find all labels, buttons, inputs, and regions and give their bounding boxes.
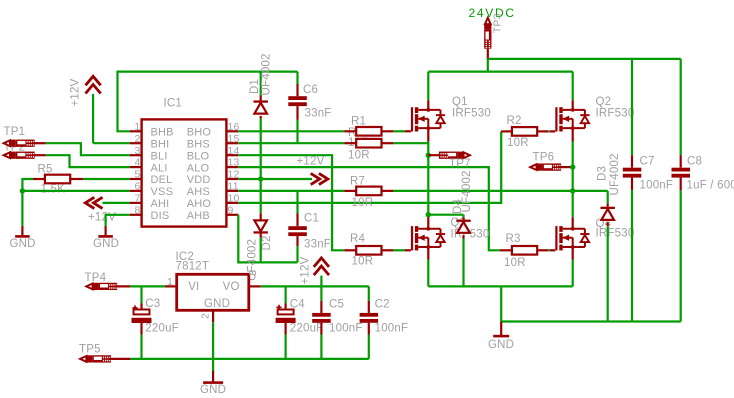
- capacitor C2: [360, 286, 379, 359]
- svg-text:TP5: TP5: [79, 344, 101, 356]
- value 1uF / 600 C8: [687, 180, 734, 192]
- ground GND (bridge): [493, 322, 509, 338]
- wire ALO row to R3: [238, 167, 500, 250]
- svg-text:UF4002: UF4002: [461, 170, 473, 212]
- label TP3 (rotated): [492, 13, 504, 33]
- transistor Q2 IRF530: [555, 107, 589, 131]
- svg-text:33nF: 33nF: [305, 108, 332, 120]
- svg-text:IRF530: IRF530: [452, 108, 491, 120]
- svg-text:4: 4: [134, 157, 140, 169]
- wire R5 right to IC1 pin 5: [83, 178, 130, 180]
- wire Q2 drain: [572, 72, 574, 110]
- value 10R R2: [507, 137, 529, 149]
- capacitor C4 (polarized): [276, 286, 296, 359]
- wire R4 to Q3 gate: [393, 249, 411, 251]
- svg-text:6: 6: [134, 181, 140, 193]
- value 7812T: [176, 260, 210, 272]
- capacitor C5: [312, 286, 331, 359]
- wire TP1 to IC1 pin 3: [46, 143, 130, 155]
- wire node B to D4: [428, 214, 463, 216]
- test point TP5: [80, 355, 130, 362]
- transistor Q3 IRF530: [411, 226, 445, 250]
- wire bridge bottom rail: [428, 285, 572, 287]
- wire to GND left: [21, 191, 23, 226]
- ground GND (left): [15, 226, 30, 238]
- wire IC1 pin1 BHB to top rail: [118, 72, 298, 132]
- value 1.5K: [41, 184, 66, 196]
- svg-text:Q2: Q2: [596, 96, 612, 108]
- value 220uF C4: [290, 323, 324, 335]
- wire R3 to Q4 gate: [548, 249, 555, 251]
- wire bridge to GND rail: [500, 286, 502, 321]
- value 100nF C7: [640, 180, 674, 192]
- svg-text:GND: GND: [488, 339, 514, 351]
- svg-text:C5: C5: [329, 299, 344, 311]
- svg-text:C1: C1: [304, 212, 319, 224]
- label UF4002 D3 (rotated): [609, 153, 621, 195]
- svg-text:10R: 10R: [504, 257, 526, 269]
- value 33nF C1: [304, 238, 331, 250]
- wire D2 top lead: [260, 179, 262, 220]
- svg-text:BHO: BHO: [187, 127, 212, 139]
- svg-text:AHO: AHO: [187, 198, 212, 210]
- wire Q4 source: [572, 247, 574, 286]
- svg-text:1.5K: 1.5K: [41, 184, 66, 196]
- wire R5 left to GND branch: [22, 179, 33, 191]
- label GND (DIS): [93, 238, 119, 250]
- label R4: [350, 233, 366, 245]
- capacitor C1: [288, 191, 307, 263]
- svg-text:13: 13: [228, 157, 240, 169]
- transistor Q4 IRF530: [555, 226, 589, 250]
- svg-text:DIS: DIS: [151, 210, 170, 222]
- label TP4: [85, 272, 107, 284]
- wire +12V to IC1 pin 2: [93, 142, 130, 144]
- wire R6 to Q1 source node: [393, 142, 428, 144]
- wire Q2 source column: [572, 128, 574, 217]
- svg-text:BLO: BLO: [187, 150, 210, 162]
- svg-text:10R: 10R: [348, 149, 370, 161]
- svg-text:TP7: TP7: [449, 158, 471, 170]
- supply +12V arrow (VO): [314, 258, 329, 287]
- label R3: [506, 233, 521, 245]
- svg-text:1: 1: [167, 276, 173, 288]
- label C5: [329, 299, 344, 311]
- label GND (left): [10, 238, 36, 250]
- diode D3 UF4002: [601, 191, 615, 322]
- svg-text:IRF530: IRF530: [451, 229, 490, 241]
- svg-text:+12V: +12V: [297, 156, 325, 168]
- svg-text:GND: GND: [10, 238, 36, 250]
- svg-text:16: 16: [228, 121, 240, 133]
- capacitor C3 (polarized): [132, 286, 152, 359]
- diode D2 UF4002: [254, 220, 268, 233]
- resistor R1: [344, 127, 393, 136]
- value IRF530 Q3: [451, 229, 490, 241]
- test point TP1: [4, 140, 46, 147]
- label R7: [350, 175, 365, 187]
- label D4 (rotated): [452, 198, 464, 214]
- svg-text:10R: 10R: [352, 256, 374, 268]
- svg-text:7: 7: [134, 193, 140, 205]
- svg-text:15: 15: [228, 133, 240, 145]
- wire GND rail right: [501, 320, 681, 322]
- svg-text:C8: C8: [687, 156, 702, 168]
- svg-text:TP6: TP6: [533, 151, 555, 163]
- label TP7: [449, 158, 471, 170]
- svg-text:D2: D2: [261, 235, 273, 250]
- label R1: [351, 115, 366, 127]
- wire AHO row to R2 branch: [238, 131, 501, 203]
- label TP5: [79, 344, 101, 356]
- svg-text:10: 10: [228, 193, 240, 205]
- svg-text:GND: GND: [204, 298, 230, 310]
- supply +12V arrow (VDD): [311, 173, 328, 184]
- wire D1 top lead: [260, 72, 262, 101]
- junction dot VDD/D1/D2: [258, 176, 263, 181]
- label +12V (pin 7): [88, 211, 116, 223]
- wire AHS row to R7: [238, 190, 344, 192]
- wire AHB to bootstrap node: [238, 215, 297, 263]
- ground GND (DIS): [98, 226, 113, 238]
- supply +12V arrow (pin 7 AHI): [85, 197, 129, 208]
- svg-text:C6: C6: [303, 84, 318, 96]
- svg-text:GND: GND: [200, 384, 226, 396]
- svg-text:D3: D3: [597, 166, 609, 181]
- label Q2: [596, 96, 612, 108]
- label GND (bridge): [488, 339, 514, 351]
- op-amp IC2 7812T regulator: [165, 270, 261, 322]
- value 100nF C2: [375, 323, 409, 335]
- svg-text:AHB: AHB: [187, 210, 210, 222]
- wire Q3 drain: [427, 215, 429, 229]
- svg-text:14: 14: [228, 145, 240, 157]
- test point TP6: [530, 163, 573, 170]
- svg-text:R3: R3: [506, 233, 521, 245]
- label R6 (behind R1 box): [348, 127, 363, 139]
- svg-text:R2: R2: [507, 115, 522, 127]
- label +12V VO (rotated): [300, 256, 312, 284]
- svg-text:3: 3: [134, 145, 140, 157]
- label C6: [303, 84, 318, 96]
- label UF4002 D2 (rotated): [247, 239, 259, 281]
- junction dot AHS/Q2 source: [570, 188, 575, 193]
- svg-text:IC1: IC1: [164, 98, 183, 110]
- value IRF530 Q2: [596, 108, 635, 120]
- wire Q3 source: [427, 247, 429, 286]
- svg-text:+12V: +12V: [88, 211, 116, 223]
- resistor R6: [344, 139, 393, 148]
- label C4: [290, 299, 306, 311]
- svg-text:C3: C3: [145, 298, 160, 310]
- svg-text:12: 12: [228, 169, 240, 181]
- svg-text:TP4: TP4: [85, 272, 107, 284]
- svg-text:BHB: BHB: [151, 127, 174, 139]
- svg-text:5: 5: [134, 169, 140, 181]
- wire DIS to GND: [106, 215, 130, 226]
- label UF4002 D4 (rotated): [461, 170, 473, 212]
- label TP2 (behind TP1 plug): [4, 142, 26, 154]
- value IRF530 Q4: [596, 228, 635, 240]
- wire BHO row to R1: [238, 130, 344, 132]
- label C1: [304, 212, 319, 224]
- capacitor C6: [288, 72, 307, 144]
- svg-text:TP1: TP1: [4, 126, 26, 138]
- svg-text:1: 1: [134, 121, 140, 133]
- svg-text:C7: C7: [640, 156, 655, 168]
- label TP6: [533, 151, 555, 163]
- svg-text:AHS: AHS: [187, 186, 210, 198]
- junction dot TP6: [570, 164, 575, 169]
- label D2 (rotated): [261, 235, 273, 250]
- wire R1 to Q1 gate: [393, 130, 411, 132]
- capacitor C7: [623, 59, 642, 322]
- label UF4002 D1 (rotated): [261, 53, 273, 95]
- svg-text:TP3: TP3: [492, 13, 504, 33]
- resistor R5: [33, 175, 83, 184]
- label +12V (VDD): [297, 156, 325, 168]
- svg-text:10R: 10R: [352, 197, 374, 209]
- wire R7 to Q2 source node: [393, 190, 607, 192]
- svg-text:3: 3: [247, 270, 259, 276]
- op-amp IC1 gate driver: [130, 119, 240, 226]
- wire 24V rail upper: [488, 58, 681, 60]
- svg-text:BHS: BHS: [187, 138, 210, 150]
- resistor R3: [500, 246, 549, 255]
- svg-text:VI: VI: [188, 281, 199, 293]
- wire VO +12V row: [261, 285, 369, 287]
- svg-text:VO: VO: [223, 281, 240, 293]
- label D1 (rotated): [249, 79, 261, 94]
- svg-text:100nF: 100nF: [375, 323, 409, 335]
- junction dot TP7: [426, 153, 431, 158]
- label TP1: [4, 126, 26, 138]
- svg-text:UF4002: UF4002: [609, 153, 621, 195]
- value 10R R4: [352, 256, 374, 268]
- svg-text:ALI: ALI: [151, 162, 168, 174]
- svg-text:UF4002: UF4002: [261, 53, 273, 95]
- wire BLO row to R4: [238, 155, 344, 250]
- svg-text:IRF530: IRF530: [596, 228, 635, 240]
- svg-text:BLI: BLI: [151, 150, 168, 162]
- svg-text:10R: 10R: [507, 137, 529, 149]
- label R5: [38, 164, 53, 176]
- wire D1 bottom to VDD node: [260, 116, 262, 179]
- svg-text:Q1: Q1: [452, 96, 468, 108]
- value 220uF C3: [145, 322, 179, 334]
- wire drain rail: [428, 70, 572, 72]
- svg-text:C2: C2: [375, 299, 390, 311]
- label C3: [145, 298, 160, 310]
- label C2: [375, 299, 390, 311]
- svg-text:220uF: 220uF: [145, 322, 179, 334]
- label C8: [687, 156, 702, 168]
- value 10R R6: [348, 149, 370, 161]
- svg-text:+12V: +12V: [300, 256, 312, 284]
- label R2: [507, 115, 522, 127]
- value 100nF C5: [329, 323, 363, 335]
- junction dot R5/VSS: [20, 188, 25, 193]
- ground GND (IC2): [203, 371, 223, 384]
- wire TP3 to drain rail: [487, 59, 489, 72]
- svg-text:2: 2: [199, 313, 211, 319]
- wire D2 bottom lead: [260, 234, 262, 263]
- svg-text:11: 11: [228, 181, 239, 193]
- wire Q1 source column: [427, 128, 429, 215]
- value 33nF C6: [305, 108, 332, 120]
- value IRF530 Q1: [452, 108, 491, 120]
- wire BHS row to R6: [238, 142, 344, 144]
- svg-text:R1: R1: [351, 115, 366, 127]
- svg-text:220uF: 220uF: [290, 323, 324, 335]
- wire VDD to +12V arrow: [238, 178, 312, 180]
- label +12V (rotated, top left): [70, 78, 82, 106]
- svg-text:8: 8: [134, 204, 140, 216]
- svg-text:7812T: 7812T: [176, 260, 210, 272]
- svg-text:AHI: AHI: [151, 198, 170, 210]
- diode D4 UF4002: [456, 215, 470, 287]
- wire TP4 to IC2 VI: [130, 285, 164, 287]
- resistor R4: [344, 246, 393, 255]
- svg-text:ALO: ALO: [187, 162, 210, 174]
- label D3 (rotated): [597, 166, 609, 181]
- transistor Q1 IRF530: [411, 107, 445, 131]
- label Q4 (behind D3): [596, 218, 612, 230]
- svg-text:BHI: BHI: [151, 138, 170, 150]
- svg-text:9: 9: [228, 204, 234, 216]
- wire TP2 to IC1 pin 4: [46, 155, 130, 167]
- svg-text:VSS: VSS: [151, 186, 174, 198]
- svg-text:DEL: DEL: [151, 174, 173, 186]
- test point TP7: [428, 152, 470, 159]
- svg-text:100nF: 100nF: [640, 180, 674, 192]
- wire R2 to Q2 gate: [548, 130, 555, 132]
- svg-text:1uF / 600: 1uF / 600: [687, 180, 734, 192]
- wire Q4 drain: [572, 217, 574, 228]
- test point TP3: [484, 18, 491, 59]
- value 10R R7: [352, 197, 374, 209]
- svg-text:100nF: 100nF: [329, 323, 363, 335]
- label 24VDC: [469, 6, 516, 20]
- value 10R R3: [504, 257, 526, 269]
- svg-text:R4: R4: [350, 233, 366, 245]
- svg-text:GND: GND: [93, 238, 119, 250]
- test point TP4: [86, 283, 130, 290]
- diode D1 UF4002: [254, 100, 268, 113]
- svg-text:+12V: +12V: [70, 78, 82, 106]
- svg-text:2: 2: [134, 133, 140, 145]
- resistor R7: [344, 187, 393, 196]
- value 10R R1 (behind R6 box): [348, 137, 370, 149]
- supply +12V arrow (top left): [86, 76, 101, 143]
- wire IC2 GND pin down: [212, 322, 214, 371]
- test point TP2: [4, 152, 46, 159]
- label IC1: [164, 98, 183, 110]
- svg-text:IRF530: IRF530: [596, 108, 635, 120]
- label Q3 (behind D4): [451, 217, 467, 229]
- label Q1: [452, 96, 468, 108]
- capacitor C8: [672, 59, 691, 322]
- wire bottom rail: [130, 358, 368, 360]
- svg-text:D1: D1: [249, 79, 261, 94]
- wire VSS row: [22, 190, 129, 192]
- label IC2: [176, 251, 195, 263]
- svg-text:VDD: VDD: [187, 174, 211, 186]
- junction dot bridge node B: [426, 212, 431, 217]
- svg-text:33nF: 33nF: [304, 238, 331, 250]
- label C7: [640, 156, 655, 168]
- wire Q1 drain: [427, 72, 429, 110]
- label GND (IC2): [200, 384, 226, 396]
- resistor R2: [501, 127, 548, 136]
